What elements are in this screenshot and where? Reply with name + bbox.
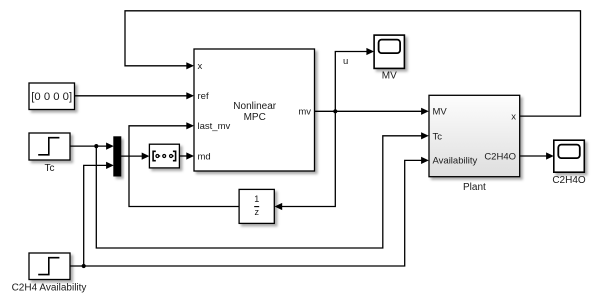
arrowhead into MV scope bbox=[366, 48, 374, 55]
arrowhead into MPC last_mv bbox=[186, 122, 194, 129]
wire x feedback: Plant x output to MPC x input bbox=[125, 11, 581, 116]
svg-text:z: z bbox=[254, 207, 259, 217]
svg-text:MPC: MPC bbox=[244, 112, 266, 123]
svg-text:x: x bbox=[198, 61, 203, 72]
arrowhead into MPC x bbox=[186, 62, 194, 69]
svg-text:C2H4O: C2H4O bbox=[484, 151, 516, 162]
wire Availability branch up to mux input 2 bbox=[84, 165, 107, 266]
wire Tc output to mux input 1 bbox=[70, 145, 107, 147]
svg-text:Nonlinear: Nonlinear bbox=[233, 101, 276, 112]
wire C2H4 Availability output to Plant Availability input bbox=[70, 160, 422, 266]
svg-text:C2H4 Availability: C2H4 Availability bbox=[12, 282, 87, 293]
svg-text:ref: ref bbox=[198, 91, 209, 102]
junction on Tc wire bbox=[94, 144, 98, 148]
svg-text:Tc: Tc bbox=[45, 163, 55, 174]
svg-text:Plant: Plant bbox=[463, 182, 486, 193]
arrowhead into unit delay (points left) bbox=[275, 203, 283, 210]
arrowhead into MPC ref bbox=[186, 92, 194, 99]
Plant subsystem block bbox=[429, 95, 520, 193]
svg-text:MV: MV bbox=[382, 70, 397, 81]
arrowhead into Plant Availability bbox=[421, 157, 429, 164]
arrowhead into mux input 1 bbox=[106, 143, 114, 150]
wire mux output to concat block bbox=[121, 155, 143, 157]
wire C2H4O: Plant output to C2H4O scope bbox=[520, 155, 547, 157]
mux bbox=[114, 137, 121, 176]
svg-text:x: x bbox=[511, 111, 516, 122]
wire u branch: mv junction up to MV scope bbox=[335, 52, 367, 112]
arrowhead into Plant MV bbox=[421, 108, 429, 115]
arrowhead into C2H4O scope bbox=[546, 152, 554, 159]
unit delay block 1/z bbox=[239, 189, 274, 223]
arrowhead into mux input 2 bbox=[106, 162, 114, 169]
junction on Availability wire bbox=[82, 264, 86, 268]
scope block C2H4O bbox=[552, 140, 586, 186]
svg-text:Tc: Tc bbox=[433, 131, 443, 142]
constant block [0 0 0 0] bbox=[29, 83, 75, 110]
wire mv branch down to unit delay input bbox=[282, 111, 335, 206]
svg-text:C2H4O: C2H4O bbox=[552, 175, 586, 186]
wire concat output to MPC md input bbox=[179, 155, 187, 157]
MPC block Nonlinear MPC bbox=[194, 49, 315, 171]
svg-text:md: md bbox=[198, 151, 211, 162]
svg-text:mv: mv bbox=[298, 107, 311, 118]
wire Tc branch down to Plant Tc input bbox=[96, 136, 422, 248]
step block Tc bbox=[29, 133, 70, 174]
wire mv: MPC output to Plant MV input bbox=[315, 110, 423, 112]
svg-text:u: u bbox=[343, 56, 348, 67]
arrowhead into Plant Tc bbox=[421, 132, 429, 139]
step block C2H4 Availability bbox=[12, 253, 87, 293]
svg-text:1: 1 bbox=[254, 194, 259, 204]
svg-text:[0 0 0 0]: [0 0 0 0] bbox=[31, 91, 72, 103]
junction on mv wire bbox=[333, 109, 337, 113]
wire unit delay output to MPC last_mv input bbox=[129, 126, 239, 207]
svg-text:Availability: Availability bbox=[433, 156, 478, 167]
scope block MV bbox=[374, 35, 404, 81]
arrowhead into MPC md bbox=[186, 152, 194, 159]
vector concat block bbox=[149, 144, 179, 168]
svg-text:MV: MV bbox=[433, 106, 448, 117]
arrowhead into concat block bbox=[142, 153, 150, 160]
wire ref: constant to MPC ref input bbox=[75, 95, 188, 97]
svg-text:last_mv: last_mv bbox=[198, 121, 231, 132]
